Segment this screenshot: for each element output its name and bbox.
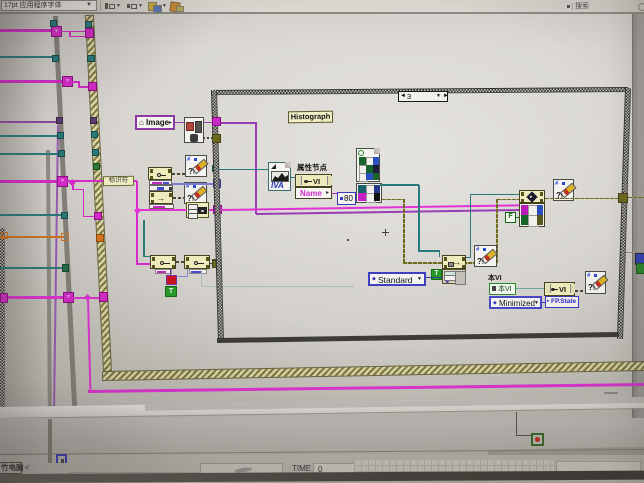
selector value 3 bbox=[407, 93, 411, 101]
IVA refnum icon bbox=[268, 162, 291, 191]
green terminal hatch y164 bbox=[93, 163, 100, 170]
olive wire O1 up bbox=[496, 199, 498, 263]
teal wire y268 bbox=[0, 267, 64, 269]
cursor dot bbox=[347, 239, 349, 241]
property node U1 Name row bbox=[295, 187, 332, 199]
font combo arrow bbox=[86, 2, 92, 8]
VI node N2 (arrow) bbox=[149, 191, 173, 204]
right light cell bbox=[556, 461, 641, 475]
property node P2 VI row bbox=[544, 282, 575, 296]
orange wire y237 bbox=[0, 236, 64, 238]
teal wire T2 vertical up bbox=[470, 194, 472, 258]
teal terminal hatch y133 bbox=[91, 131, 98, 138]
toolbar icon cleanup (orange) bbox=[169, 1, 180, 12]
wire W1 step bbox=[69, 31, 71, 36]
gray bar A lower segment bbox=[48, 419, 52, 463]
case border right bbox=[617, 88, 631, 339]
inner structure hatched bottom border bbox=[103, 362, 644, 380]
index array node M1 bbox=[186, 202, 209, 218]
toolbar background bbox=[0, 0, 644, 14]
dashes icon to olive tunnel bbox=[203, 137, 212, 139]
TIME value cell bbox=[313, 463, 355, 476]
teal terminal bar B y214 bbox=[0, 214, 62, 216]
horizontal scrollbar band bbox=[0, 397, 644, 419]
olive wire beyond tunnel bbox=[628, 197, 644, 199]
属性节点 label bbox=[297, 164, 327, 172]
purple wire from tunnel into case bbox=[221, 122, 257, 124]
magenta vertical V_b to node A bbox=[136, 181, 138, 265]
dark violet terminal on hatch y120 bbox=[90, 117, 97, 124]
olive wire O1 into U3 bbox=[497, 199, 519, 201]
selector box V4 on W4 bbox=[63, 292, 74, 303]
purple wire vertical V_c bbox=[255, 123, 257, 214]
scribble signature bbox=[235, 467, 252, 473]
teal wire into node A top bbox=[143, 220, 145, 257]
VI node B (key) bbox=[184, 255, 210, 269]
node B sublabel bbox=[189, 269, 207, 274]
purple wire y122 bbox=[0, 121, 57, 123]
blue wire N1 row to tunnel bbox=[172, 183, 215, 185]
W3 branch junction diamond bbox=[69, 179, 75, 185]
orange hollow square left bbox=[1, 232, 8, 239]
olive wire O1 down bbox=[403, 199, 405, 263]
magenta vertical V_a down bbox=[87, 299, 92, 391]
dark violet terminal on bar B y120 bbox=[56, 117, 63, 124]
magenta wire W3 bold bbox=[0, 180, 58, 183]
VI node N1 (key) bbox=[148, 167, 172, 180]
teal terminal on bar B y57 bbox=[52, 55, 59, 62]
orange hollow square on bar bbox=[61, 233, 69, 241]
blue tunnel on case border bbox=[213, 179, 221, 188]
toolbar icon distribute bbox=[127, 4, 130, 8]
node A sublabel bbox=[155, 269, 172, 274]
olive wire O1 from cluster2 bbox=[382, 199, 404, 201]
gray line right mid bbox=[624, 252, 644, 253]
magenta wire W4 bold bbox=[0, 296, 65, 299]
magenta wire M1 to tunnel bbox=[209, 209, 215, 211]
W3 branch down-step bbox=[72, 182, 74, 190]
second scrollbar thumb lower right bbox=[488, 447, 644, 459]
right window edge band bbox=[632, 14, 644, 462]
teal terminal hatch y151 bbox=[92, 149, 99, 156]
left cells band bbox=[70, 472, 210, 481]
tunnel terminal W4 on hatch bbox=[99, 292, 108, 302]
case border top bbox=[211, 87, 628, 95]
olive wire O1 horizontal low bbox=[403, 262, 497, 264]
teal wire T2 into U3 bbox=[470, 194, 519, 196]
dashes P2 to E3 bbox=[575, 290, 585, 292]
spreadsheet fine grid bbox=[354, 460, 554, 478]
wire W1 thin segment bbox=[61, 31, 88, 33]
teal wire T1 vertical bbox=[418, 185, 420, 251]
teal tunnel on case border bbox=[212, 165, 219, 172]
wire Name to 80 box bbox=[332, 193, 338, 194]
property node P2 FP.State row bbox=[545, 296, 579, 308]
error dashes node A to node B bbox=[176, 261, 184, 263]
teal wire T2 from U2 right bbox=[465, 257, 471, 258]
teal wire cluster1 right bbox=[380, 184, 419, 186]
wire IVA to U1 bbox=[291, 177, 295, 178]
font combo box bbox=[1, 0, 97, 11]
wire F to C3 bbox=[516, 217, 519, 218]
dashes into olive tunnel bbox=[206, 263, 212, 265]
N2 sublabel row1 bbox=[149, 204, 174, 209]
red color box constant bbox=[166, 275, 177, 285]
eraser icon E2 bbox=[553, 179, 574, 201]
eraser icon E_mid bbox=[474, 245, 497, 267]
tunnel terminal W2 on hatch bbox=[88, 82, 97, 91]
的电脑 text bbox=[0, 462, 22, 474]
N1 sublabel row1 bbox=[149, 180, 172, 185]
W4 continue to hatch bbox=[73, 297, 101, 299]
big cell left of TIME bbox=[200, 463, 283, 476]
partial node at right edge (blue) bbox=[635, 253, 644, 265]
toolbar right ring icon bbox=[638, 3, 644, 11]
dashes node B to tunnel bbox=[210, 263, 213, 265]
eraser icon E1a bbox=[185, 155, 207, 177]
Image control terminal bbox=[135, 115, 175, 130]
magenta wire pair upper (ROI) bbox=[221, 204, 519, 211]
teal wire y136 bbox=[0, 135, 57, 137]
toolbar icon resize (colored) bbox=[148, 2, 157, 11]
wire W3 thin to x137 bbox=[67, 180, 137, 182]
wire VI ref to property node bbox=[516, 288, 545, 289]
cluster C3 under U3 bbox=[519, 203, 545, 227]
static VI reference bbox=[489, 283, 516, 295]
dark olive tunnel right of node B on case border bbox=[212, 260, 220, 268]
eraser icon E1b bbox=[184, 182, 207, 204]
purple wire pair lower (image) bbox=[256, 209, 519, 215]
toolbar icon align bbox=[105, 3, 108, 9]
toolbar separator bbox=[100, 1, 101, 11]
gray loop border bar B bbox=[53, 16, 77, 407]
lavender wire node B down bbox=[187, 269, 188, 277]
property node U1 VI row bbox=[295, 174, 332, 187]
green T boolean constant bbox=[165, 286, 177, 297]
faint tiny text bottom right of diagram bbox=[604, 392, 618, 394]
dark green terminal bar B y267 bbox=[62, 264, 69, 272]
gray loop border bar A bbox=[46, 150, 52, 463]
violet wire node A to red box bbox=[170, 269, 172, 275]
search dot icon bbox=[567, 5, 570, 8]
search text bbox=[575, 3, 589, 10]
selector box V1 on W1 bbox=[51, 26, 62, 37]
wire Image to icon bbox=[175, 122, 184, 124]
array grid under U2 bbox=[442, 269, 466, 284]
T boolean green constant T5 bbox=[431, 269, 442, 280]
teal wire y57 bbox=[0, 56, 53, 58]
pale refnum wire node B right bbox=[201, 269, 202, 287]
case border left bbox=[211, 90, 224, 342]
标识符 label bbox=[103, 176, 134, 187]
inner structure hatched left border bbox=[86, 16, 111, 372]
cursor crosshair bbox=[382, 232, 389, 233]
blue loop iteration glyph bbox=[56, 454, 67, 463]
magenta tunnel at screen left edge bbox=[0, 293, 8, 303]
teal wire y154 bbox=[0, 153, 58, 155]
wire Standard to grid bbox=[426, 277, 443, 278]
tunnel terminal W3 on hatch bbox=[94, 212, 102, 220]
tunnel terminal W1 on hatch bbox=[85, 28, 94, 38]
teal wire T1 to U2 bbox=[418, 250, 440, 252]
magenta wire W1 bold bbox=[0, 29, 58, 32]
partial node at right edge (green) bbox=[636, 263, 644, 274]
magenta wire W2 bold bbox=[0, 80, 64, 83]
olive tunnel on case right border bbox=[618, 193, 628, 203]
wire to stop icon bbox=[516, 412, 517, 436]
olive tunnel below on case border bbox=[212, 134, 221, 143]
Histograph label bbox=[288, 111, 333, 124]
Minimized enum constant bbox=[489, 296, 542, 309]
bottom strip background bbox=[0, 455, 644, 483]
teal terminal bar B y152 bbox=[58, 150, 65, 157]
case border bottom bbox=[217, 332, 619, 343]
wire Minimized to FP.State bbox=[542, 302, 546, 303]
eraser icon E3 bbox=[585, 271, 606, 294]
cluster constant 1 (page) bbox=[356, 148, 380, 182]
TIME label bbox=[292, 465, 311, 473]
magenta tunnel (image wire) on case border bbox=[212, 117, 221, 126]
wire icon to magenta tunnel bbox=[204, 122, 213, 124]
orange terminal on hatch y237 bbox=[96, 234, 104, 242]
IMAQ create icon bbox=[184, 117, 204, 143]
teal wire tunnel to IVA bbox=[218, 169, 269, 170]
selector box V3 on W3 bbox=[57, 176, 68, 187]
olive tunnel on case border (low) bbox=[212, 259, 221, 268]
error dashes N2 to E1b bbox=[173, 197, 184, 199]
teal terminal bar B y134 bbox=[57, 132, 64, 139]
font combo text bbox=[4, 2, 62, 9]
selector right arrow bbox=[443, 93, 449, 99]
case selector label box bbox=[398, 91, 448, 102]
thin purple vertical wire bbox=[53, 125, 59, 407]
junction diamond on V_b bbox=[133, 206, 140, 213]
long magenta wire bottom bbox=[88, 383, 644, 393]
teal terminal on hatch y21 bbox=[85, 21, 92, 28]
Standard enum constant bbox=[368, 272, 426, 286]
selector box V2 on W2 bbox=[62, 76, 73, 87]
selector dropdown arrow bbox=[436, 94, 441, 99]
numeric constant 80 bbox=[337, 192, 356, 205]
teal terminal on bar B y21 bbox=[50, 20, 57, 27]
gray area below band bbox=[0, 418, 644, 456]
wire W2 thin + step bbox=[72, 81, 80, 83]
bottom dark strip bbox=[0, 471, 644, 483]
magenta tunnel on case border bbox=[213, 205, 222, 214]
magenta wire V_b branch to M1 bbox=[137, 209, 187, 211]
IMAQ node U2 bbox=[442, 255, 466, 269]
cluster constant 2 bbox=[356, 183, 382, 203]
F boolean constant bbox=[505, 212, 516, 223]
selector left arrow bbox=[400, 93, 406, 99]
本VI label bbox=[488, 275, 502, 282]
W4 junction diamond bbox=[84, 294, 91, 301]
< glyph bbox=[25, 465, 29, 472]
olive wire U3 to tunnel bbox=[545, 198, 619, 200]
taskbar separation line bbox=[0, 449, 644, 455]
N1 sublabel row2 bbox=[149, 185, 173, 191]
left case-structure border fragment (checkered) bbox=[0, 228, 5, 408]
stop/record icon bbox=[531, 433, 544, 446]
teal terminal on hatch y57 bbox=[87, 55, 95, 62]
error dashes N1 to E1a bbox=[172, 173, 185, 175]
VI node A (key) bbox=[150, 255, 176, 269]
IMAQ node U3 bbox=[519, 190, 545, 203]
